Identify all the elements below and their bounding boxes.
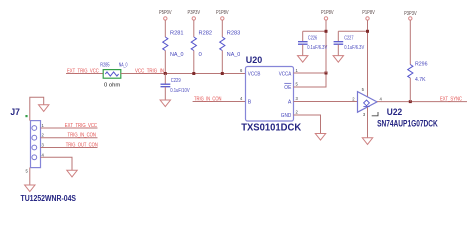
wire U20 pin1 VCCA xyxy=(294,72,327,74)
svg-text:TRIG_IN_CON: TRIG_IN_CON xyxy=(194,96,222,102)
wire xyxy=(367,20,369,97)
ground xyxy=(39,105,49,112)
wire xyxy=(221,51,223,74)
resistor R282 xyxy=(191,30,212,58)
op-amp U20 TXS0101DCK body xyxy=(241,55,302,133)
wire xyxy=(221,20,223,37)
svg-text:A: A xyxy=(288,99,292,105)
wire main bus EXT_TRIG_VCC xyxy=(66,73,103,75)
junction xyxy=(325,72,328,75)
svg-text:C226: C226 xyxy=(308,35,317,41)
capacitor C226 xyxy=(298,31,327,55)
svg-text:0: 0 xyxy=(199,52,202,58)
svg-text:VCCA: VCCA xyxy=(279,71,292,77)
svg-text:4.7K: 4.7K xyxy=(415,77,426,83)
resistor R283 xyxy=(220,30,241,58)
capacitor C229 xyxy=(161,74,190,101)
svg-text:TRIG_OUT_CON: TRIG_OUT_CON xyxy=(66,143,98,149)
svg-text:C227: C227 xyxy=(344,35,353,41)
ground xyxy=(362,138,372,145)
transistor U22 buffer SN74AUP1G07DCK xyxy=(358,92,439,129)
ground xyxy=(315,134,325,141)
svg-text:P1P8V: P1P8V xyxy=(216,10,229,16)
pin 1 marker xyxy=(372,112,378,116)
junction xyxy=(409,100,412,103)
wire U20 pin3 A to U22 input xyxy=(294,101,358,103)
svg-text:C229: C229 xyxy=(171,78,181,84)
svg-text:P5P0V: P5P0V xyxy=(159,10,172,16)
svg-text:VCCB: VCCB xyxy=(248,71,261,77)
wire xyxy=(193,20,195,37)
svg-text:J7: J7 xyxy=(10,107,20,118)
svg-text:0.1uF/6.3V: 0.1uF/6.3V xyxy=(307,45,327,51)
wire U20 pin2 GND xyxy=(294,115,321,134)
svg-text:EXT_TRIG_VCC: EXT_TRIG_VCC xyxy=(67,68,99,74)
svg-text:R281: R281 xyxy=(170,30,184,36)
resistor R296 xyxy=(408,62,428,84)
svg-text:U20: U20 xyxy=(246,55,262,66)
svg-text:P3P3V: P3P3V xyxy=(404,11,417,17)
wire J7 pin1 xyxy=(41,127,98,129)
wire J7 shield top xyxy=(30,97,44,120)
wire xyxy=(193,51,195,74)
ground xyxy=(333,56,343,63)
connector J7 xyxy=(10,107,76,203)
power symbol P1P8V (over C226) xyxy=(321,10,334,20)
svg-text:R285: R285 xyxy=(100,62,109,68)
svg-text:GND: GND xyxy=(281,113,292,119)
node green dot xyxy=(25,115,27,117)
svg-text:NA_0: NA_0 xyxy=(170,52,184,58)
power symbol P3P3V xyxy=(188,10,201,20)
wire U22 output EXT_SYNC xyxy=(377,101,467,103)
resistor R285 0 ohm xyxy=(100,62,127,88)
svg-text:VCC_TRIG_IN: VCC_TRIG_IN xyxy=(135,68,164,74)
svg-text:TRIG_IN_CON: TRIG_IN_CON xyxy=(68,133,97,139)
svg-text:EXT_TRIG_VCC: EXT_TRIG_VCC xyxy=(65,123,97,129)
wire VCC_TRIG_IN xyxy=(121,73,246,75)
wire U22 gnd xyxy=(367,107,369,138)
svg-text:NA_0: NA_0 xyxy=(227,52,241,58)
ground xyxy=(67,170,77,177)
svg-text:R296: R296 xyxy=(415,62,428,68)
junction xyxy=(164,72,167,75)
svg-text:P3P3V: P3P3V xyxy=(188,10,201,16)
ground xyxy=(298,56,308,63)
svg-text:0.1uF/10V: 0.1uF/10V xyxy=(170,88,190,94)
power symbol P1P8V xyxy=(216,10,229,20)
svg-text:P1P8V: P1P8V xyxy=(321,10,334,16)
wire J7 pin3 xyxy=(41,147,98,149)
svg-text:0 ohm: 0 ohm xyxy=(104,83,121,89)
wire TRIG_IN_CON to U20 pin4 xyxy=(193,101,246,103)
wire xyxy=(164,51,166,74)
svg-text:SN74AUP1G07DCK: SN74AUP1G07DCK xyxy=(377,118,438,128)
svg-text:0.1uF/6.3V: 0.1uF/6.3V xyxy=(344,45,364,51)
svg-text:TU1252WNR-04S: TU1252WNR-04S xyxy=(21,194,77,203)
wire U20 pin5 OE xyxy=(294,86,327,88)
svg-text:OE: OE xyxy=(284,85,291,91)
wire xyxy=(409,78,411,102)
wire xyxy=(325,20,327,73)
svg-text:TXS0101DCK: TXS0101DCK xyxy=(241,122,302,133)
svg-text:R283: R283 xyxy=(227,30,241,36)
svg-text:EXT_SYNC: EXT_SYNC xyxy=(440,97,462,103)
power symbol P3P3V (over R296) xyxy=(404,11,417,20)
junction xyxy=(221,72,224,75)
power symbol P1P8V (over U22) xyxy=(362,10,375,20)
ground xyxy=(160,100,170,107)
junction xyxy=(366,30,369,33)
ground xyxy=(25,185,35,192)
resistor R281 xyxy=(163,30,184,58)
wire xyxy=(164,20,166,37)
wire J7 pin5 shield xyxy=(29,168,31,186)
wire J7 pin2 xyxy=(41,137,98,139)
power symbol P5P0V xyxy=(159,10,172,20)
svg-text:B: B xyxy=(248,99,252,105)
svg-text:P1P8V: P1P8V xyxy=(362,10,375,16)
svg-text:R282: R282 xyxy=(199,30,213,36)
svg-text:NA_0: NA_0 xyxy=(119,62,128,68)
svg-text:U22: U22 xyxy=(387,107,402,118)
wire xyxy=(409,20,411,64)
wire J7 pin4 xyxy=(41,157,73,170)
junction xyxy=(325,30,328,33)
junction xyxy=(192,72,195,75)
capacitor C227 xyxy=(334,31,368,55)
